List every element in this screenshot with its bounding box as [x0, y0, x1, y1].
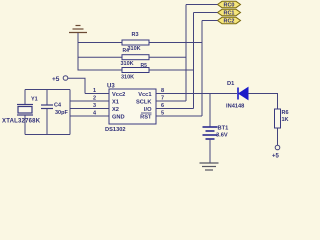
svg-text:SCLK: SCLK — [136, 100, 152, 106]
port RC2 — [218, 17, 241, 24]
diode D1 — [226, 81, 248, 110]
wire: diode to R6 — [248, 94, 278, 110]
port RC0 — [218, 1, 241, 8]
wire: crystal loop top rail — [25, 89, 70, 91]
svg-text:310K: 310K — [121, 75, 134, 81]
svg-text:RC1: RC1 — [223, 11, 234, 17]
wire: I/O vertical — [193, 13, 195, 109]
svg-text:R6: R6 — [282, 110, 289, 116]
svg-text:RC2: RC2 — [223, 19, 234, 25]
wire: row2 (rail to SCLK net) — [78, 56, 186, 58]
pin 8 — [156, 88, 237, 94]
svg-text:R3: R3 — [132, 32, 139, 38]
pin 7 — [156, 96, 186, 102]
svg-text:C4: C4 — [54, 103, 62, 109]
svg-text:RST: RST — [140, 115, 152, 121]
resistor R4 — [121, 48, 150, 69]
svg-text:D1: D1 — [227, 81, 234, 87]
wire: RC2 to bus — [202, 20, 218, 22]
wire: row3 (rail to I/O net) — [78, 69, 194, 71]
battery BT1 — [203, 126, 229, 140]
resistor R6 — [275, 109, 289, 128]
svg-text:30pF: 30pF — [55, 110, 68, 116]
wire: R6 to +5 — [277, 128, 279, 145]
svg-text:X2: X2 — [112, 107, 119, 113]
svg-text:1: 1 — [93, 88, 96, 94]
svg-text:7: 7 — [161, 96, 164, 102]
svg-text:Y1: Y1 — [31, 97, 38, 103]
wire: battery stem — [209, 94, 211, 127]
svg-text:+5: +5 — [272, 154, 280, 160]
wire: SCLK vertical — [185, 5, 187, 102]
svg-text:6: 6 — [161, 103, 164, 109]
svg-text:2: 2 — [93, 96, 96, 102]
wire: left rail vertical — [77, 33, 79, 71]
svg-text:BT1: BT1 — [218, 126, 229, 132]
svg-text:5: 5 — [161, 111, 164, 117]
crystal Y1 — [2, 90, 41, 135]
svg-text:RC0: RC0 — [223, 3, 234, 9]
IC U3 DS1302 — [105, 84, 156, 134]
svg-text:XTAL32768K: XTAL32768K — [2, 119, 41, 125]
pin 1 — [85, 88, 109, 94]
wire: RST vertical — [201, 21, 203, 117]
resistor R3 — [122, 32, 149, 52]
svg-text:I/O: I/O — [144, 107, 152, 113]
svg-text:1K: 1K — [282, 117, 289, 123]
svg-text:3: 3 — [93, 103, 96, 109]
wire: row1 (rail to RST net) — [78, 42, 202, 44]
svg-text:Vcc2: Vcc2 — [112, 92, 125, 98]
resistor R5 — [121, 68, 149, 81]
wire: +5 to pin 1 — [68, 78, 85, 93]
pin 2 — [70, 96, 109, 102]
pin 5 — [156, 111, 202, 117]
svg-text:3.6V: 3.6V — [216, 133, 228, 139]
node +5 (bottom right) — [272, 145, 280, 159]
svg-text:X1: X1 — [112, 100, 119, 106]
svg-text:+5: +5 — [52, 76, 60, 83]
wire: crystal loop bottom rail — [25, 134, 70, 136]
pin 3 — [70, 103, 109, 109]
svg-text:U3: U3 — [107, 84, 115, 90]
svg-text:DS1302: DS1302 — [105, 127, 126, 133]
svg-text:IN4148: IN4148 — [226, 104, 244, 110]
pin 6 — [156, 103, 194, 109]
wire: RC0 to bus — [186, 4, 218, 6]
svg-text:GND: GND — [112, 115, 125, 121]
svg-text:310K: 310K — [128, 46, 141, 52]
ground (battery) — [200, 163, 219, 170]
wire: crystal loop right vertical — [69, 90, 71, 135]
svg-text:Vcc1: Vcc1 — [138, 92, 151, 98]
pin 4 — [70, 111, 109, 117]
wire: RC1 to bus — [194, 12, 218, 14]
svg-text:8: 8 — [161, 88, 164, 94]
svg-text:R4: R4 — [123, 48, 130, 54]
node +5 (top left) — [52, 76, 68, 83]
port RC1 — [218, 9, 241, 16]
capacitor C4 — [41, 90, 68, 135]
wire: battery to ground — [209, 139, 211, 163]
svg-text:310K: 310K — [121, 61, 134, 67]
ground (top left rail) — [69, 26, 87, 33]
